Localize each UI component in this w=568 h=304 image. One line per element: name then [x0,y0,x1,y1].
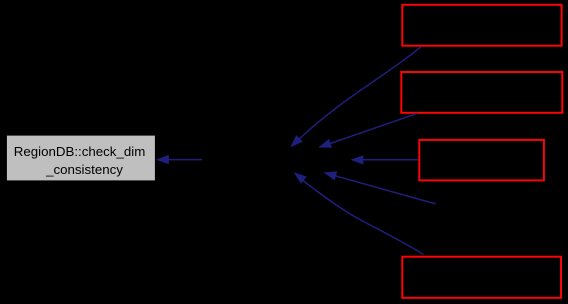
caller node 1 (red, truncated) [402,5,561,46]
edge A0: middle node -> check_dim_consistency [156,155,202,164]
edge A2: caller node 2 -> middle node [318,113,417,147]
caller node 3 (red, truncated) [419,140,544,181]
edge A4: hidden node -> middle node [323,171,435,204]
svg-text:RegionDB::check_dim: RegionDB::check_dim [14,144,146,159]
edge A1: caller node 1 -> middle node [290,47,421,148]
edge A3: caller node 3 -> middle node [350,155,418,164]
svg-text:_consistency: _consistency [45,162,123,177]
caller node 4 (red, truncated) [402,257,561,298]
caller node 2 (red, truncated) [401,72,562,113]
edge A5: caller node 4 -> middle node [294,172,424,254]
node RegionDB::check_dim_consistency (current node, grey) [7,136,155,181]
